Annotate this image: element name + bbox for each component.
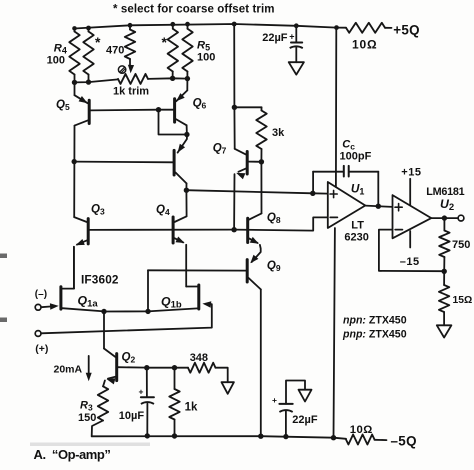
wire Q5 emitter from node bbox=[75, 82, 88, 103]
wire 10 ohm to -5Q bbox=[375, 439, 387, 441]
transistor Q5 label bbox=[56, 99, 70, 112]
capacitor 22uF bottom curved plate bbox=[279, 410, 292, 437]
svg-text:10Ω: 10Ω bbox=[352, 37, 377, 51]
ground bottom 22uF bbox=[299, 390, 312, 402]
svg-text:20mA: 20mA bbox=[54, 364, 83, 376]
wire Q7 emitter down to base rail bbox=[233, 174, 235, 229]
node rail junction R4 top bbox=[72, 26, 77, 31]
node Q5-Q6 base junction bbox=[156, 107, 161, 112]
node rail junction R5 top bbox=[185, 22, 190, 27]
wire follower base to Q5 collector bbox=[74, 161, 173, 164]
op-amp U1 name 6230 bbox=[344, 231, 368, 243]
transistor Q3 label bbox=[91, 204, 105, 217]
svg-text:+: + bbox=[272, 395, 277, 405]
wire Q8 emitter to Q9 emitter bbox=[252, 245, 261, 262]
node rail Q9 collector junction bbox=[258, 434, 263, 439]
svg-text:22µF: 22µF bbox=[262, 32, 288, 44]
wire U1 V- supply to bottom rail bbox=[334, 228, 335, 438]
transistor Q6 bar bbox=[173, 99, 176, 122]
resistor 10 ohm top label bbox=[352, 37, 377, 51]
transistor Q8 label bbox=[267, 212, 281, 225]
op-amp U2 +15 stub bbox=[409, 179, 411, 205]
svg-text:* select for coarse offset tri: * select for coarse offset trim bbox=[113, 4, 275, 16]
wire Q6 collector bbox=[176, 119, 187, 134]
annotation 20mA bbox=[54, 364, 83, 376]
capacitor 10uF bottom lead bbox=[146, 404, 148, 436]
asterisk star 2 bbox=[162, 34, 168, 50]
ground 15 ohm bbox=[437, 325, 452, 337]
node rail junction star resistor 2 top bbox=[170, 22, 175, 27]
svg-text:100: 100 bbox=[47, 55, 65, 67]
transistor Q9 bar bbox=[246, 260, 249, 282]
net -5Q label bbox=[391, 433, 417, 448]
wire source link bbox=[104, 308, 197, 311]
wire Q5 collector bbox=[74, 120, 88, 217]
wire 10 ohm to +5Q bbox=[385, 27, 392, 29]
svg-text:22µF: 22µF bbox=[292, 414, 318, 426]
transistor Q3 arrow bbox=[76, 239, 85, 245]
ground top 22uF bbox=[289, 62, 304, 74]
transistor type note npn bbox=[343, 315, 407, 327]
transistor Q9 label bbox=[267, 260, 281, 273]
svg-text:750: 750 bbox=[452, 239, 470, 251]
wire bottom -5 supply rail bbox=[92, 436, 334, 438]
transistor Q3 bar bbox=[87, 219, 90, 244]
wire (-) gate lead bbox=[41, 306, 50, 309]
wire base rail Q3 Q4 Q8 to U1 minus bbox=[90, 217, 328, 230]
node Q5 collector tap bbox=[72, 159, 77, 164]
svg-text:(+): (+) bbox=[35, 343, 48, 355]
transistor Q4 label bbox=[156, 204, 170, 217]
node rail 10uF junction bbox=[145, 433, 150, 438]
transistor Q3 emitter bbox=[77, 240, 87, 244]
op-amp U1 triangle bbox=[328, 182, 366, 228]
op-amp U1 name LT bbox=[351, 219, 364, 231]
capacitor 10uF top lead bbox=[146, 368, 148, 397]
svg-text:10µF: 10µF bbox=[119, 410, 145, 422]
capacitor Cc label bbox=[342, 139, 355, 152]
jfet Q1a drain bbox=[62, 247, 74, 289]
svg-text:6230: 6230 bbox=[344, 231, 368, 243]
wire 348 to ground bbox=[216, 368, 228, 383]
svg-text:348: 348 bbox=[190, 352, 208, 364]
jfet Q1a gate arrow bbox=[50, 303, 59, 309]
wire top +5 supply rail bbox=[75, 24, 337, 29]
wire second stage to U1 plus bbox=[186, 190, 312, 193]
capacitor 22uF bottom plus sign bbox=[272, 395, 277, 405]
wire Q2 collector bbox=[104, 312, 115, 357]
svg-text:(–): (–) bbox=[35, 289, 47, 300]
wire Q2 base to 1k and 348 bbox=[147, 367, 188, 369]
wire rail to Q7 collector bbox=[233, 24, 235, 107]
wire 22uF to ground bbox=[286, 381, 305, 404]
ground 348 bbox=[222, 382, 234, 394]
svg-text:150: 150 bbox=[78, 412, 96, 424]
wire Q4 emitter to Q1b drain bbox=[185, 245, 187, 287]
resistor R4 bbox=[69, 29, 79, 83]
potentiometer 1k trim bbox=[118, 74, 148, 84]
svg-text:+15: +15 bbox=[401, 167, 421, 179]
op-amp U1 plus sign bbox=[330, 190, 337, 197]
op-amp U1 minus sign bbox=[330, 216, 337, 218]
wire Q8 collector bbox=[249, 162, 261, 220]
annotation 20mA arrow bbox=[86, 356, 92, 381]
svg-text:–15: –15 bbox=[400, 256, 420, 268]
node rail 22uF junction bbox=[283, 434, 288, 439]
potentiometer 1k trim label bbox=[113, 86, 149, 98]
wire U2 output bbox=[431, 217, 458, 219]
asterisk star 1 bbox=[95, 34, 101, 50]
wire junction into U1 plus bbox=[313, 192, 328, 194]
node rail corner U1 supply branch bbox=[334, 25, 339, 30]
node star1 bottom junction bbox=[86, 79, 91, 84]
resistor 348 value label bbox=[190, 352, 208, 364]
jfet Q1b label bbox=[161, 294, 182, 310]
resistor 470 value label bbox=[106, 45, 124, 57]
op-amp U2 name LM6181 bbox=[426, 186, 464, 198]
svg-text:3k: 3k bbox=[272, 127, 285, 139]
capacitor Cc value 100pF bbox=[340, 151, 372, 163]
transistor Q8 arrow bbox=[250, 237, 259, 244]
op-amp U2 minus sign bbox=[395, 229, 402, 231]
transistor Q5 arrow bbox=[79, 96, 88, 103]
transistor follower bar bbox=[173, 150, 176, 175]
note select for coarse offset trim bbox=[113, 4, 275, 16]
terminal output bbox=[458, 215, 464, 221]
op-amp U2 -15 label bbox=[400, 256, 420, 268]
transistor Q7 emitter bbox=[238, 169, 245, 172]
svg-text:IF3602: IF3602 bbox=[81, 272, 119, 286]
node Q2 base 10uF junction bbox=[144, 365, 149, 370]
node U1 plus input junction bbox=[310, 191, 315, 196]
resistor R4 value 100 bbox=[47, 55, 65, 67]
svg-text:pnp: ZTX450: pnp: ZTX450 bbox=[342, 328, 407, 340]
wire Q3 emitter to Q1a drain bbox=[73, 247, 75, 289]
scan mark left lower bbox=[0, 318, 7, 323]
terminal (-) label bbox=[35, 289, 47, 300]
terminal (-) input bbox=[35, 304, 41, 310]
transistor Q7 arrow bbox=[236, 173, 245, 179]
node 1k 348 junction bbox=[172, 365, 177, 370]
capacitor 22uF plus sign bbox=[289, 32, 294, 42]
transistor Q2 bar bbox=[115, 354, 118, 381]
transistor Q7 bar bbox=[246, 152, 249, 175]
resistor R5 value 100 bbox=[197, 52, 215, 64]
wire Q2 emitter to R3 bbox=[103, 381, 105, 387]
svg-text:1k: 1k bbox=[185, 401, 198, 413]
wire rail to bottom 10 ohm bbox=[334, 438, 347, 439]
node R5 bottom junction bbox=[185, 76, 190, 81]
node Q7 base junction bbox=[259, 159, 264, 164]
transistor Q6 arrow bbox=[176, 93, 185, 101]
wire Q2 base bbox=[118, 366, 147, 368]
svg-text:–5Q: –5Q bbox=[391, 433, 417, 448]
svg-text:A. “Op-amp”: A. “Op-amp” bbox=[34, 447, 111, 462]
node rail junction star resistor 1 top bbox=[86, 26, 91, 31]
wire Q1b gate lead bbox=[41, 304, 212, 333]
svg-text:470: 470 bbox=[106, 45, 124, 57]
wire mirror diode connection bbox=[159, 110, 187, 135]
node U2 output junction bbox=[442, 215, 447, 220]
resistor 750 value label bbox=[452, 239, 470, 251]
wire Cc to U1 output bbox=[349, 172, 378, 206]
jfet Q1a label bbox=[78, 294, 99, 310]
node star2 bottom junction bbox=[170, 76, 175, 81]
transistor Q2 label bbox=[122, 352, 136, 365]
transistor Q2 emitter bbox=[108, 377, 115, 379]
node R4 bottom junction bbox=[72, 80, 77, 85]
op-amp U1 label bbox=[351, 182, 365, 197]
wire Q4 collector bbox=[175, 190, 187, 222]
node base rail Q7 emitter junction bbox=[231, 227, 236, 232]
node 750 15ohm feedback junction bbox=[442, 269, 447, 274]
svg-text:+5Q: +5Q bbox=[393, 23, 420, 38]
svg-text:*: * bbox=[95, 34, 101, 50]
svg-text:+: + bbox=[289, 32, 294, 42]
resistor R5 bbox=[182, 24, 192, 78]
resistor 3k bbox=[256, 107, 266, 162]
svg-text:100pF: 100pF bbox=[340, 151, 372, 163]
svg-text:100: 100 bbox=[197, 52, 215, 64]
resistor 1k bottom bbox=[169, 368, 179, 436]
transistor Q7 label bbox=[213, 142, 227, 155]
wire follower emitter bbox=[178, 135, 187, 153]
resistor 1k value label bbox=[185, 401, 198, 413]
node second stage output bbox=[184, 188, 189, 193]
resistor star 2 (select) bbox=[168, 24, 178, 78]
svg-text:LT: LT bbox=[351, 219, 364, 231]
wire left trim node bbox=[75, 79, 119, 82]
scan mark left upper bbox=[0, 254, 7, 259]
wire Q7 base bbox=[249, 161, 262, 163]
resistor 10 ohm bottom label bbox=[350, 424, 373, 436]
capacitor 10uF curved plate bbox=[141, 402, 154, 404]
terminal (+) input bbox=[35, 331, 41, 337]
transistor Q9 arrow bbox=[250, 255, 258, 264]
net +5Q label bbox=[393, 23, 420, 38]
transistor follower arrow bbox=[178, 144, 186, 153]
capacitor 10uF plus sign bbox=[139, 386, 144, 396]
transistor Q4 arrow bbox=[176, 237, 185, 244]
wire follower collector bbox=[175, 172, 186, 190]
capacitor 22uF positive plate bbox=[291, 26, 302, 43]
caption A Op-amp bbox=[34, 447, 111, 462]
op-amp U2 triangle bbox=[393, 195, 432, 238]
wire Cc branch up bbox=[313, 172, 344, 194]
node rail U1 supply junction bbox=[331, 435, 336, 440]
jfet Q1b channel bar bbox=[197, 285, 200, 309]
resistor 10 ohm bottom bbox=[346, 435, 375, 445]
transistor Q4 emitter bbox=[175, 238, 184, 242]
jfet Q1a source bbox=[62, 308, 104, 311]
resistor R5 label bbox=[197, 40, 210, 53]
jfet Q1a channel bar bbox=[59, 287, 62, 309]
capacitor 10uF plus plate bbox=[141, 396, 154, 398]
resistor 348 bbox=[188, 363, 216, 373]
wire rail to 10 ohm bbox=[337, 27, 347, 29]
transistor Q8 bar bbox=[246, 218, 249, 242]
node Q1b source junction bbox=[145, 309, 150, 314]
wire Q5-Q6 base rail bbox=[91, 109, 159, 112]
node U1 output junction bbox=[376, 204, 381, 209]
wire Q6 base to junction bbox=[159, 109, 174, 111]
svg-text:10Ω: 10Ω bbox=[350, 424, 373, 436]
capacitor 22uF curved plate bbox=[290, 46, 303, 62]
transistor type note pnp bbox=[342, 328, 407, 340]
op-amp U2 -15 stub bbox=[409, 231, 411, 248]
wire U1 V+ supply from rail bbox=[335, 28, 337, 187]
resistor star 1 (select) bbox=[83, 28, 93, 82]
capacitor 22uF bottom value label bbox=[292, 414, 318, 426]
resistor R4 label bbox=[54, 43, 67, 56]
capacitor 10uF value label bbox=[119, 410, 145, 422]
node rail junction 470 top bbox=[128, 23, 133, 28]
resistor R3 bbox=[92, 386, 109, 436]
capacitor 22uF bottom plus plate bbox=[279, 403, 292, 405]
wire Q6 emitter from node bbox=[176, 79, 187, 102]
svg-text:npn: ZTX450: npn: ZTX450 bbox=[343, 315, 407, 327]
terminal (+) label bbox=[35, 343, 48, 355]
node Q7 collector 3k junction bbox=[232, 105, 237, 110]
resistor 15 ohm bbox=[439, 271, 449, 325]
wire Q9 collector bbox=[249, 278, 261, 436]
resistor R3 label bbox=[80, 399, 93, 412]
trim wiper circle bbox=[118, 66, 125, 73]
transistor Q4 bar bbox=[172, 217, 175, 243]
resistor 470 bbox=[125, 25, 135, 65]
wire Q7 collector segment bbox=[234, 107, 245, 154]
wire feedback riser bbox=[147, 270, 149, 311]
wire Q9 base line bbox=[148, 269, 246, 271]
node Q6 collector junction bbox=[184, 132, 189, 137]
wire U1 output bbox=[365, 206, 392, 207]
node rail junction Q7 branch bbox=[232, 22, 237, 27]
wire right trim node bbox=[148, 77, 187, 80]
transistor Q5 bar bbox=[88, 100, 91, 123]
op-amp U2 +15 label bbox=[401, 167, 421, 179]
capacitor Cc plates bbox=[344, 166, 349, 177]
wire Q3 collector bbox=[74, 217, 87, 222]
wire junction to 3k top bbox=[234, 106, 261, 108]
node rail 1k junction bbox=[172, 433, 177, 438]
resistor 10 ohm top bbox=[346, 23, 385, 33]
resistor R3 value 150 bbox=[78, 412, 96, 424]
node rail junction 22uF top bbox=[294, 23, 299, 28]
resistor 750 bbox=[439, 218, 449, 271]
svg-text:+: + bbox=[139, 386, 144, 396]
op-amp U2 label bbox=[440, 197, 454, 213]
part label IF3602 bbox=[81, 272, 119, 286]
jfet Q1b drain bbox=[186, 286, 197, 288]
transistor Q2 arrow bbox=[106, 378, 115, 384]
op-amp U2 plus sign bbox=[395, 204, 402, 211]
transistor Q8 emitter bbox=[249, 238, 257, 243]
svg-text:*: * bbox=[162, 34, 168, 50]
jfet Q1b gate arrow bbox=[202, 301, 211, 307]
wire U2 feedback bbox=[379, 230, 443, 272]
capacitor 22uF value label bbox=[262, 32, 288, 44]
node Q1a source junction bbox=[101, 309, 106, 314]
arrow 470 to trim wiper bbox=[128, 65, 134, 74]
svg-text:1k trim: 1k trim bbox=[113, 86, 149, 98]
svg-text:15Ω: 15Ω bbox=[453, 295, 473, 306]
resistor 15 ohm value label bbox=[453, 295, 473, 306]
transistor Q6 label bbox=[193, 97, 207, 110]
scan smudge bottom bbox=[30, 443, 150, 447]
resistor 3k value label bbox=[272, 127, 285, 139]
